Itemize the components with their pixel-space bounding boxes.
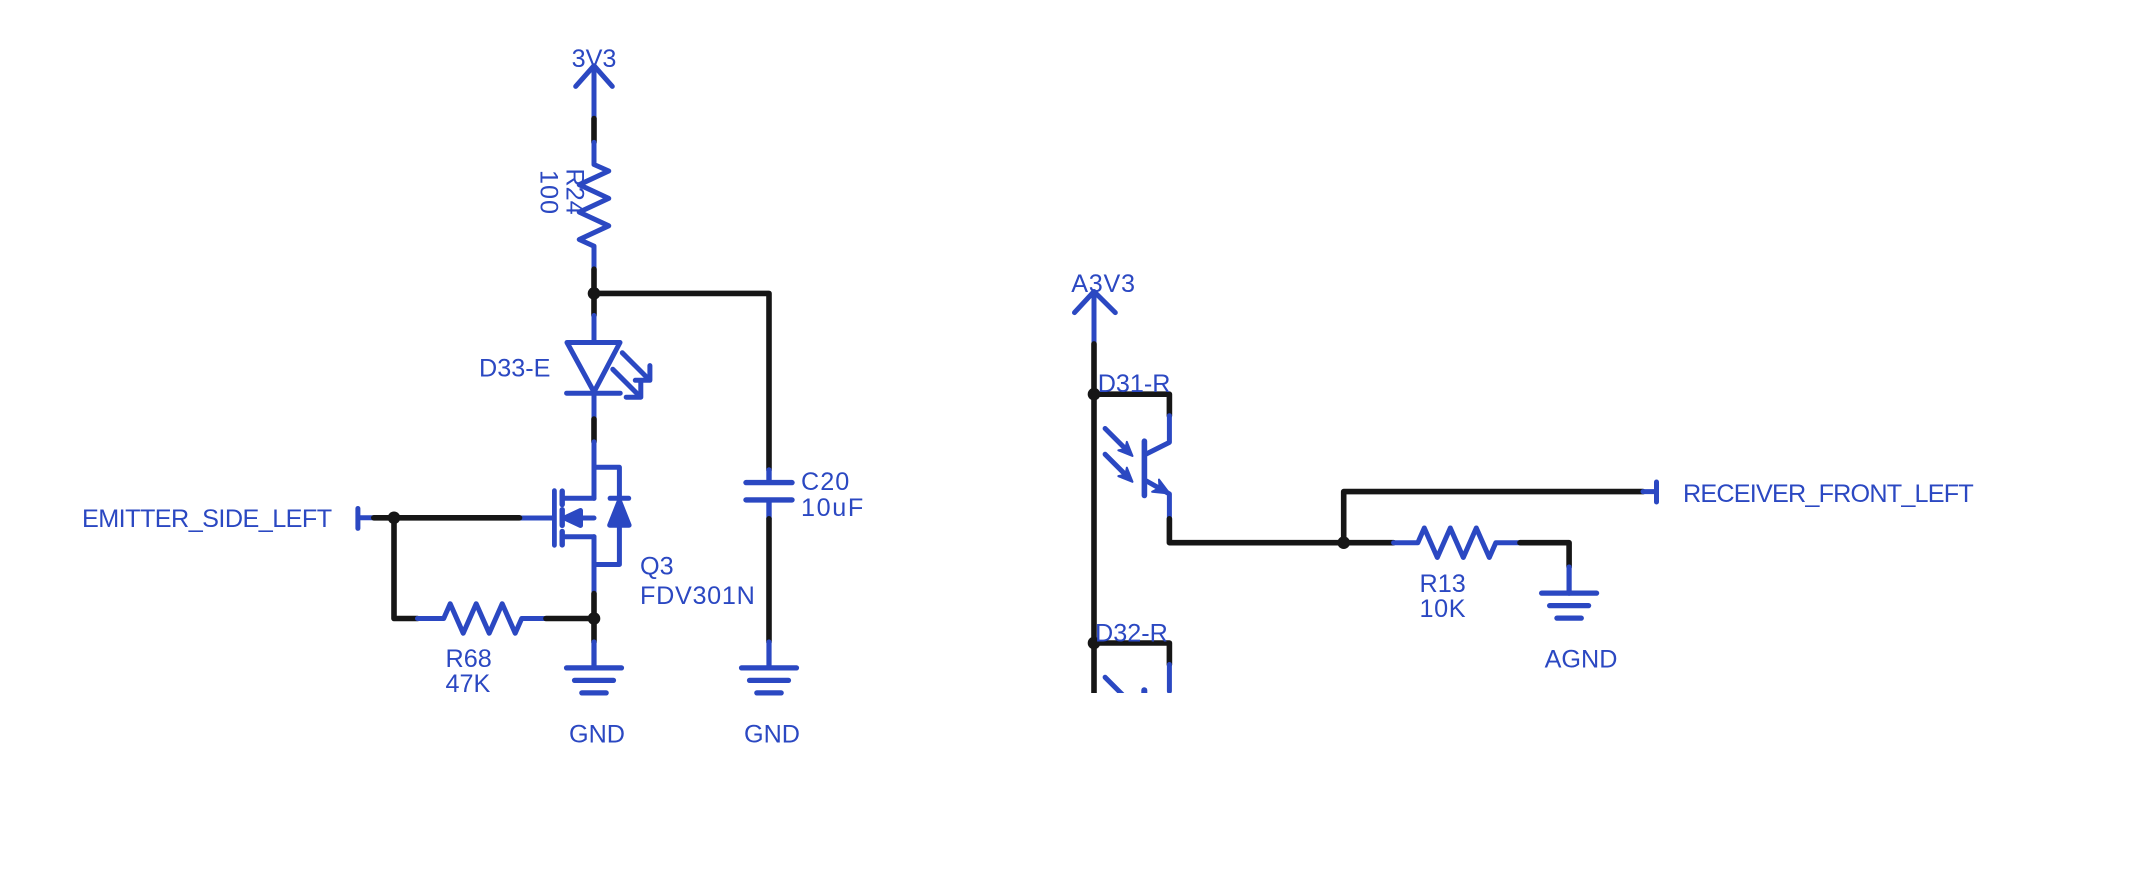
wire node up to receiver line [1344, 492, 1643, 543]
wire 3V3 to R24 [591, 119, 597, 143]
resistor R24 [579, 142, 609, 269]
wire A3V3 down [1091, 344, 1097, 394]
wire R24 to node [591, 269, 597, 315]
wire node to C20 [594, 293, 769, 470]
junction D32 top [1088, 637, 1101, 650]
resistor R68 [418, 604, 547, 634]
junction gate node [388, 512, 401, 525]
junction R13 node [1337, 536, 1350, 549]
svg-text:10uF: 10uF [801, 494, 865, 522]
pin end RECEIVER_FRONT_LEFT [1643, 482, 1657, 502]
LED D33-E [567, 316, 650, 420]
svg-text:GND: GND [569, 720, 625, 748]
svg-text:100: 100 [535, 170, 563, 215]
wire gate node to gate [394, 515, 520, 521]
ground AGND [1542, 567, 1597, 618]
ground GND (Q3 source) [567, 642, 622, 693]
transistor Q3 [520, 442, 630, 594]
pin end EMITTER_SIDE_LEFT [358, 509, 374, 529]
svg-text:EMITTER_SIDE_LEFT: EMITTER_SIDE_LEFT [82, 505, 332, 533]
wire D31 emitter down and right [1169, 519, 1343, 543]
wire R68 to source node [546, 616, 594, 622]
svg-text:GND: GND [744, 720, 800, 748]
svg-text:D33-E: D33-E [479, 355, 550, 383]
svg-text:D31-R: D31-R [1098, 370, 1171, 398]
svg-text:D32-R: D32-R [1095, 620, 1168, 648]
svg-text:Q3: Q3 [640, 553, 674, 581]
wire bus below D32 [1091, 643, 1097, 696]
svg-text:3V3: 3V3 [572, 45, 617, 73]
wire source to GND [591, 594, 597, 642]
wire D32 top [1094, 643, 1169, 665]
svg-text:RECEIVER_FRONT_LEFT: RECEIVER_FRONT_LEFT [1683, 480, 1973, 508]
svg-text:10K: 10K [1420, 595, 1467, 623]
phototransistor D31-R [1105, 416, 1169, 519]
svg-text:C20: C20 [801, 468, 850, 496]
resistor R13 [1394, 528, 1520, 558]
node junction [588, 287, 601, 300]
svg-text:AGND: AGND [1545, 645, 1618, 673]
wire R13 to AGND [1520, 543, 1569, 567]
wire LED to Q3 [591, 419, 597, 442]
svg-text:R24: R24 [561, 168, 589, 214]
wire junction to D31 collector [1094, 394, 1169, 416]
svg-text:A3V3: A3V3 [1071, 270, 1135, 298]
svg-text:47K: 47K [446, 670, 491, 698]
phototransistor D32-R (clipped) [1094, 643, 1169, 740]
svg-text:R68: R68 [446, 645, 492, 673]
capacitor C20 [746, 470, 792, 519]
power symbol A3V3 [1075, 292, 1116, 344]
svg-text:FDV301N: FDV301N [640, 582, 756, 610]
junction source node [588, 612, 601, 625]
junction D31 top [1088, 388, 1101, 401]
wire gate node down to R68 [394, 518, 418, 619]
power symbol 3V3 [576, 66, 613, 119]
wire node to R13 [1344, 540, 1394, 546]
wire C20 to GND [766, 519, 772, 642]
wire bus down to D32 [1091, 394, 1097, 643]
svg-text:R13: R13 [1420, 570, 1466, 598]
wire label to gate node [374, 515, 394, 521]
ground GND (C20) [742, 642, 797, 693]
